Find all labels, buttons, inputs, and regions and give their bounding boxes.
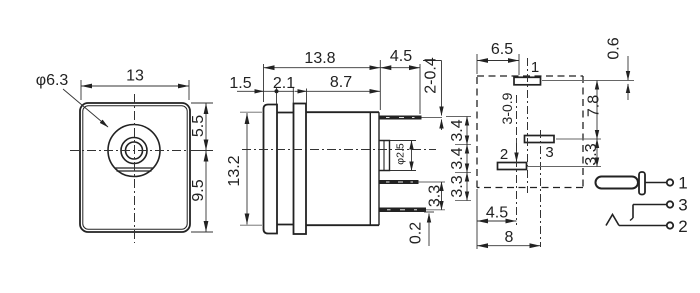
svg-text:2: 2	[500, 146, 508, 163]
svg-text:φ2.5: φ2.5	[395, 143, 407, 165]
svg-text:2: 2	[678, 217, 687, 236]
svg-text:2-0.4: 2-0.4	[423, 57, 440, 94]
svg-text:4.5: 4.5	[486, 205, 508, 222]
svg-text:3-0.9: 3-0.9	[499, 92, 515, 124]
svg-text:1: 1	[531, 59, 539, 76]
svg-text:8: 8	[505, 229, 514, 246]
svg-text:9.5: 9.5	[190, 179, 207, 201]
svg-text:6.5: 6.5	[491, 41, 513, 58]
svg-text:5.5: 5.5	[190, 115, 207, 137]
svg-text:13.2: 13.2	[226, 155, 243, 186]
svg-text:13.8: 13.8	[304, 50, 335, 67]
svg-text:4.5: 4.5	[390, 48, 412, 65]
svg-text:φ6.3: φ6.3	[36, 72, 69, 89]
svg-text:7.8: 7.8	[586, 95, 603, 117]
svg-text:3.3: 3.3	[427, 185, 444, 207]
svg-text:3.3: 3.3	[583, 143, 600, 165]
svg-text:2.1: 2.1	[273, 75, 295, 92]
svg-text:3.3: 3.3	[449, 175, 466, 197]
svg-text:0.6: 0.6	[606, 37, 623, 59]
svg-text:13: 13	[126, 68, 144, 85]
svg-text:1: 1	[678, 174, 687, 193]
svg-text:3.4: 3.4	[449, 119, 466, 141]
svg-text:0.2: 0.2	[408, 222, 425, 244]
svg-text:8.7: 8.7	[330, 74, 352, 91]
svg-text:3: 3	[678, 196, 687, 215]
svg-text:1.5: 1.5	[229, 75, 251, 92]
svg-text:3.4: 3.4	[449, 147, 466, 169]
svg-text:3: 3	[545, 144, 553, 161]
